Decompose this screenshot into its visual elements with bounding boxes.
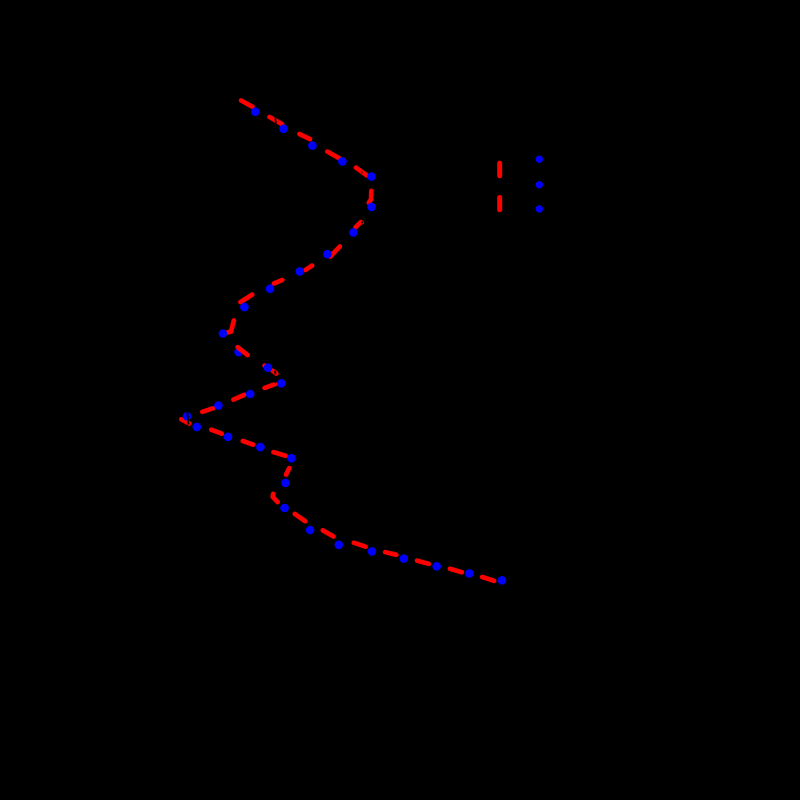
data point P27 xyxy=(368,547,377,556)
data point P18 xyxy=(183,412,192,421)
red dash segment D31 xyxy=(482,577,494,581)
red dash segment D22 xyxy=(274,452,286,456)
data point P2 xyxy=(279,125,288,134)
red dash segment D14 xyxy=(262,363,267,368)
legend red dashed line sample (lower dash) xyxy=(497,198,502,210)
occlusion mark M3 center xyxy=(361,221,363,223)
data point P16 xyxy=(246,390,255,399)
red dash segment D2 xyxy=(270,117,283,124)
data point P1 xyxy=(251,107,260,116)
red dash segment D6 (bent) xyxy=(369,191,372,203)
occlusion mark M2 on D5 xyxy=(361,171,363,173)
red dash segment D11 xyxy=(240,295,252,303)
red dash segment D10 xyxy=(274,280,282,283)
red dash segment D25 xyxy=(295,514,305,521)
red dash segment D5 xyxy=(356,168,367,176)
data point P23 xyxy=(281,479,290,488)
data point P4 xyxy=(338,157,347,166)
data point P14 xyxy=(264,363,273,372)
red dash segment D19 xyxy=(181,419,189,423)
red dash segment D26 xyxy=(323,530,334,536)
occlusion mark M6 slit through P18 and D19 xyxy=(187,412,188,425)
data point P10 xyxy=(266,284,275,293)
red dash segment D21 xyxy=(243,441,253,445)
red dash segment D29 xyxy=(417,561,429,564)
legend point sample 2 xyxy=(536,181,543,188)
data point P6 xyxy=(367,203,376,212)
blue data points (series 2) xyxy=(183,107,507,584)
legend red dashed line sample (upper dash) xyxy=(497,163,502,176)
data point P12 xyxy=(219,329,228,338)
occlusion mark M5 on D16 xyxy=(274,381,276,383)
legend xyxy=(500,156,543,213)
red dash segment D17 xyxy=(233,395,244,400)
data point P28 xyxy=(400,554,409,563)
red dash segment D28 xyxy=(385,552,396,555)
red dash segment D18 xyxy=(202,408,213,412)
data point P30 xyxy=(465,569,474,578)
data point P31 xyxy=(498,576,507,585)
red dash segment D15 xyxy=(273,371,277,374)
data point P24 xyxy=(280,504,289,513)
red dashed profile curve (series 1) xyxy=(181,101,494,581)
data point P9 xyxy=(296,267,305,276)
red dash segment D8 xyxy=(330,247,340,257)
legend point sample 1 xyxy=(536,156,543,163)
red dash segment D16 xyxy=(265,384,276,388)
black overdraw marks where invisible black series crosses xyxy=(187,118,364,425)
data point P21 xyxy=(256,443,265,452)
data point P19 xyxy=(193,423,202,432)
red dash segment D12 (bent) xyxy=(228,320,234,332)
red dash segment D30 xyxy=(450,569,462,573)
red dash segment D27 xyxy=(354,543,366,547)
data point P11 xyxy=(240,303,249,312)
data point P15 xyxy=(277,379,286,388)
red rim at end of D7 xyxy=(361,221,364,224)
legend point sample 3 xyxy=(536,205,543,212)
data point P26 xyxy=(335,541,344,550)
red dash segment D9 xyxy=(305,266,312,271)
data point P5 xyxy=(367,172,376,181)
red dash segment D7 xyxy=(356,222,361,227)
data point P13 xyxy=(234,348,243,357)
occlusion mark M4 on D15 xyxy=(274,371,277,375)
data point P25 xyxy=(306,526,315,535)
data point P3 xyxy=(308,141,317,150)
red dash segment D4 xyxy=(327,152,339,159)
data point P29 xyxy=(432,562,441,571)
data point P20 xyxy=(224,433,233,442)
occlusion mark M1 on D2 xyxy=(274,118,277,124)
data point P22 xyxy=(287,454,296,463)
red dash segment D13 (drawn over point P13) xyxy=(238,347,248,355)
data point P8 xyxy=(323,250,332,259)
red dash segment D24 (bent) xyxy=(273,494,278,502)
data point P17 xyxy=(214,401,223,410)
red dash segment D3 xyxy=(299,134,310,139)
red dash segment D23 xyxy=(286,468,289,475)
red dash segment D1 xyxy=(241,101,252,107)
data point P7 xyxy=(349,228,358,237)
red dash segment D20 xyxy=(211,430,221,434)
